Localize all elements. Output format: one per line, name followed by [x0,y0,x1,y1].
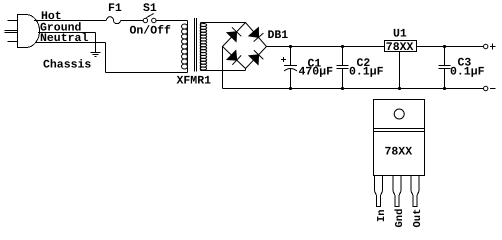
svg-text:Gnd: Gnd [394,209,406,228]
svg-text:78XX: 78XX [385,146,413,159]
svg-text:Neutral: Neutral [40,32,88,45]
svg-text:On/Off: On/Off [130,25,172,38]
svg-text:78XX: 78XX [386,41,414,54]
svg-text:0.1µF: 0.1µF [450,66,485,79]
svg-text:Out: Out [412,209,424,228]
svg-text:S1: S1 [143,2,157,15]
svg-text:DB1: DB1 [268,29,289,42]
svg-text:470µF: 470µF [299,66,334,79]
svg-text:F1: F1 [108,2,122,15]
svg-text:0.1µF: 0.1µF [349,66,384,79]
svg-text:Chassis: Chassis [43,59,91,72]
svg-text:U1: U1 [393,28,407,41]
svg-text:XFMR1: XFMR1 [177,75,212,88]
svg-text:In: In [376,209,388,222]
